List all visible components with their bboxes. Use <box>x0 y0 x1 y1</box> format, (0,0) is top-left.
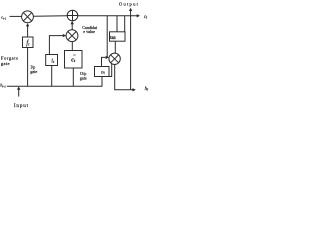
svg-text:Input: Input <box>14 103 29 109</box>
wire tanh box down to output multiply <box>114 41 116 53</box>
i_t gate box <box>46 55 58 66</box>
wire h_{t-1} line to o_t box <box>7 77 102 87</box>
tanh box <box>110 32 126 41</box>
arrowhead up into add node <box>71 21 74 24</box>
svg-text:e value: e value <box>83 29 95 34</box>
wire c_{t-1} to forget multiply <box>10 15 22 17</box>
wire forget multiply to add node <box>33 15 67 18</box>
arrowhead up into forget multiply <box>26 23 29 26</box>
svg-text:Output: Output <box>119 1 139 6</box>
arrowhead up Output <box>129 8 132 11</box>
arrowhead right into input multiply <box>63 34 66 37</box>
f_t gate box <box>23 37 34 48</box>
wire output branch up to Output arrow <box>130 11 132 90</box>
multiply node input gate <box>66 30 78 42</box>
wire f_t box up to forget multiply <box>27 26 29 37</box>
wire c branch down to output multiply left arrow <box>106 16 108 58</box>
svg-text:tan: tan <box>110 35 116 41</box>
svg-text:gate: gate <box>1 61 10 66</box>
wire i_t box up and right to input multiply <box>49 36 63 55</box>
o_t gate box <box>95 67 110 77</box>
arrowhead right to h_t <box>133 88 136 91</box>
wire f branch down to h line <box>27 48 29 87</box>
candidate value box <box>65 51 83 69</box>
wire input multiply up to add node <box>71 24 73 30</box>
wire i branch down to h line <box>51 66 53 87</box>
wire c branch down to tanh box <box>116 16 118 32</box>
add node cell state <box>67 10 78 21</box>
wire c branch down to tanh box top-right corner <box>124 16 126 32</box>
wire output multiply down then right to h_t arrow <box>115 65 133 90</box>
wire add node to c_t arrow <box>78 15 137 17</box>
svg-text:ct-1: ct-1 <box>1 15 7 21</box>
multiply node output gate <box>109 53 120 64</box>
wire candidate branch down to h line <box>72 68 74 86</box>
arrowhead right into output multiply <box>106 56 109 59</box>
wire o_t box corner up to output multiply bottom <box>109 64 112 77</box>
wire o_t box up and right to output multiply <box>102 57 106 66</box>
svg-text:Forgate: Forgate <box>1 55 19 60</box>
multiply node forget gate <box>22 11 34 23</box>
svg-text:gate: gate <box>30 69 37 74</box>
svg-text:ht-1: ht-1 <box>0 83 6 89</box>
wire input multiply down to candidate box <box>71 42 73 51</box>
svg-text:gate: gate <box>80 76 87 81</box>
arrowhead up Input <box>17 86 20 89</box>
arrowhead right to c_t <box>137 14 140 17</box>
wire input arrow stem <box>18 89 20 97</box>
